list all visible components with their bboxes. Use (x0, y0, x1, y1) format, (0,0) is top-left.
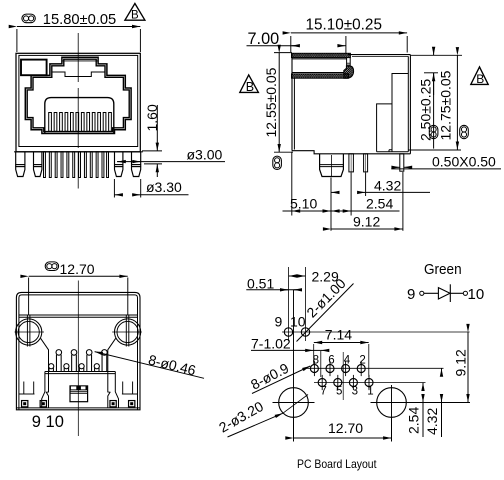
svg-text:12.70: 12.70 (328, 420, 363, 436)
svg-text:7-1.02: 7-1.02 (251, 335, 291, 351)
svg-text:9 10: 9 10 (32, 413, 64, 431)
svg-text:B: B (476, 72, 484, 86)
svg-text:12.55±0.05: 12.55±0.05 (263, 67, 279, 137)
svg-text:2: 2 (359, 355, 365, 367)
svg-text:9: 9 (407, 286, 415, 303)
svg-text:10: 10 (290, 314, 306, 330)
svg-text:0.51: 0.51 (247, 276, 274, 292)
svg-text:4.32: 4.32 (424, 408, 440, 435)
svg-text:8-ø0.46: 8-ø0.46 (147, 351, 198, 378)
svg-text:ø3.30: ø3.30 (146, 179, 182, 195)
svg-text:9.12: 9.12 (353, 214, 380, 230)
svg-text:5.10: 5.10 (290, 196, 317, 212)
svg-text:4.32: 4.32 (374, 178, 401, 194)
svg-text:15.80±0.05: 15.80±0.05 (43, 12, 116, 28)
svg-text:6: 6 (328, 355, 334, 367)
svg-text:B: B (246, 80, 254, 94)
svg-text:8: 8 (313, 355, 319, 367)
svg-text:7.00: 7.00 (248, 30, 280, 48)
svg-text:2.54: 2.54 (366, 196, 393, 212)
svg-text:12.75±0.05: 12.75±0.05 (438, 70, 454, 140)
svg-text:8-ø0.9: 8-ø0.9 (248, 360, 291, 393)
svg-text:ø3.00: ø3.00 (187, 147, 223, 163)
svg-text:2.50±0.25: 2.50±0.25 (418, 79, 434, 141)
svg-text:15.10±0.25: 15.10±0.25 (306, 17, 382, 34)
svg-text:1: 1 (367, 386, 373, 398)
svg-text:4: 4 (344, 355, 351, 367)
svg-text:2-ø3.20: 2-ø3.20 (216, 398, 266, 436)
svg-text:0.50X0.50: 0.50X0.50 (432, 154, 496, 170)
svg-text:B: B (131, 10, 139, 22)
svg-text:12.70: 12.70 (60, 261, 95, 277)
svg-text:9.12: 9.12 (452, 349, 468, 376)
svg-text:7: 7 (320, 386, 326, 398)
svg-text:9: 9 (275, 314, 283, 330)
svg-text:PC Board Layout: PC Board Layout (297, 457, 377, 471)
svg-text:3: 3 (352, 386, 358, 398)
svg-text:1.60: 1.60 (144, 104, 160, 131)
svg-text:5: 5 (336, 386, 342, 398)
svg-text:Green: Green (424, 261, 462, 278)
svg-text:2.54: 2.54 (406, 407, 422, 434)
svg-text:7.14: 7.14 (325, 327, 352, 343)
svg-text:10: 10 (468, 286, 485, 303)
